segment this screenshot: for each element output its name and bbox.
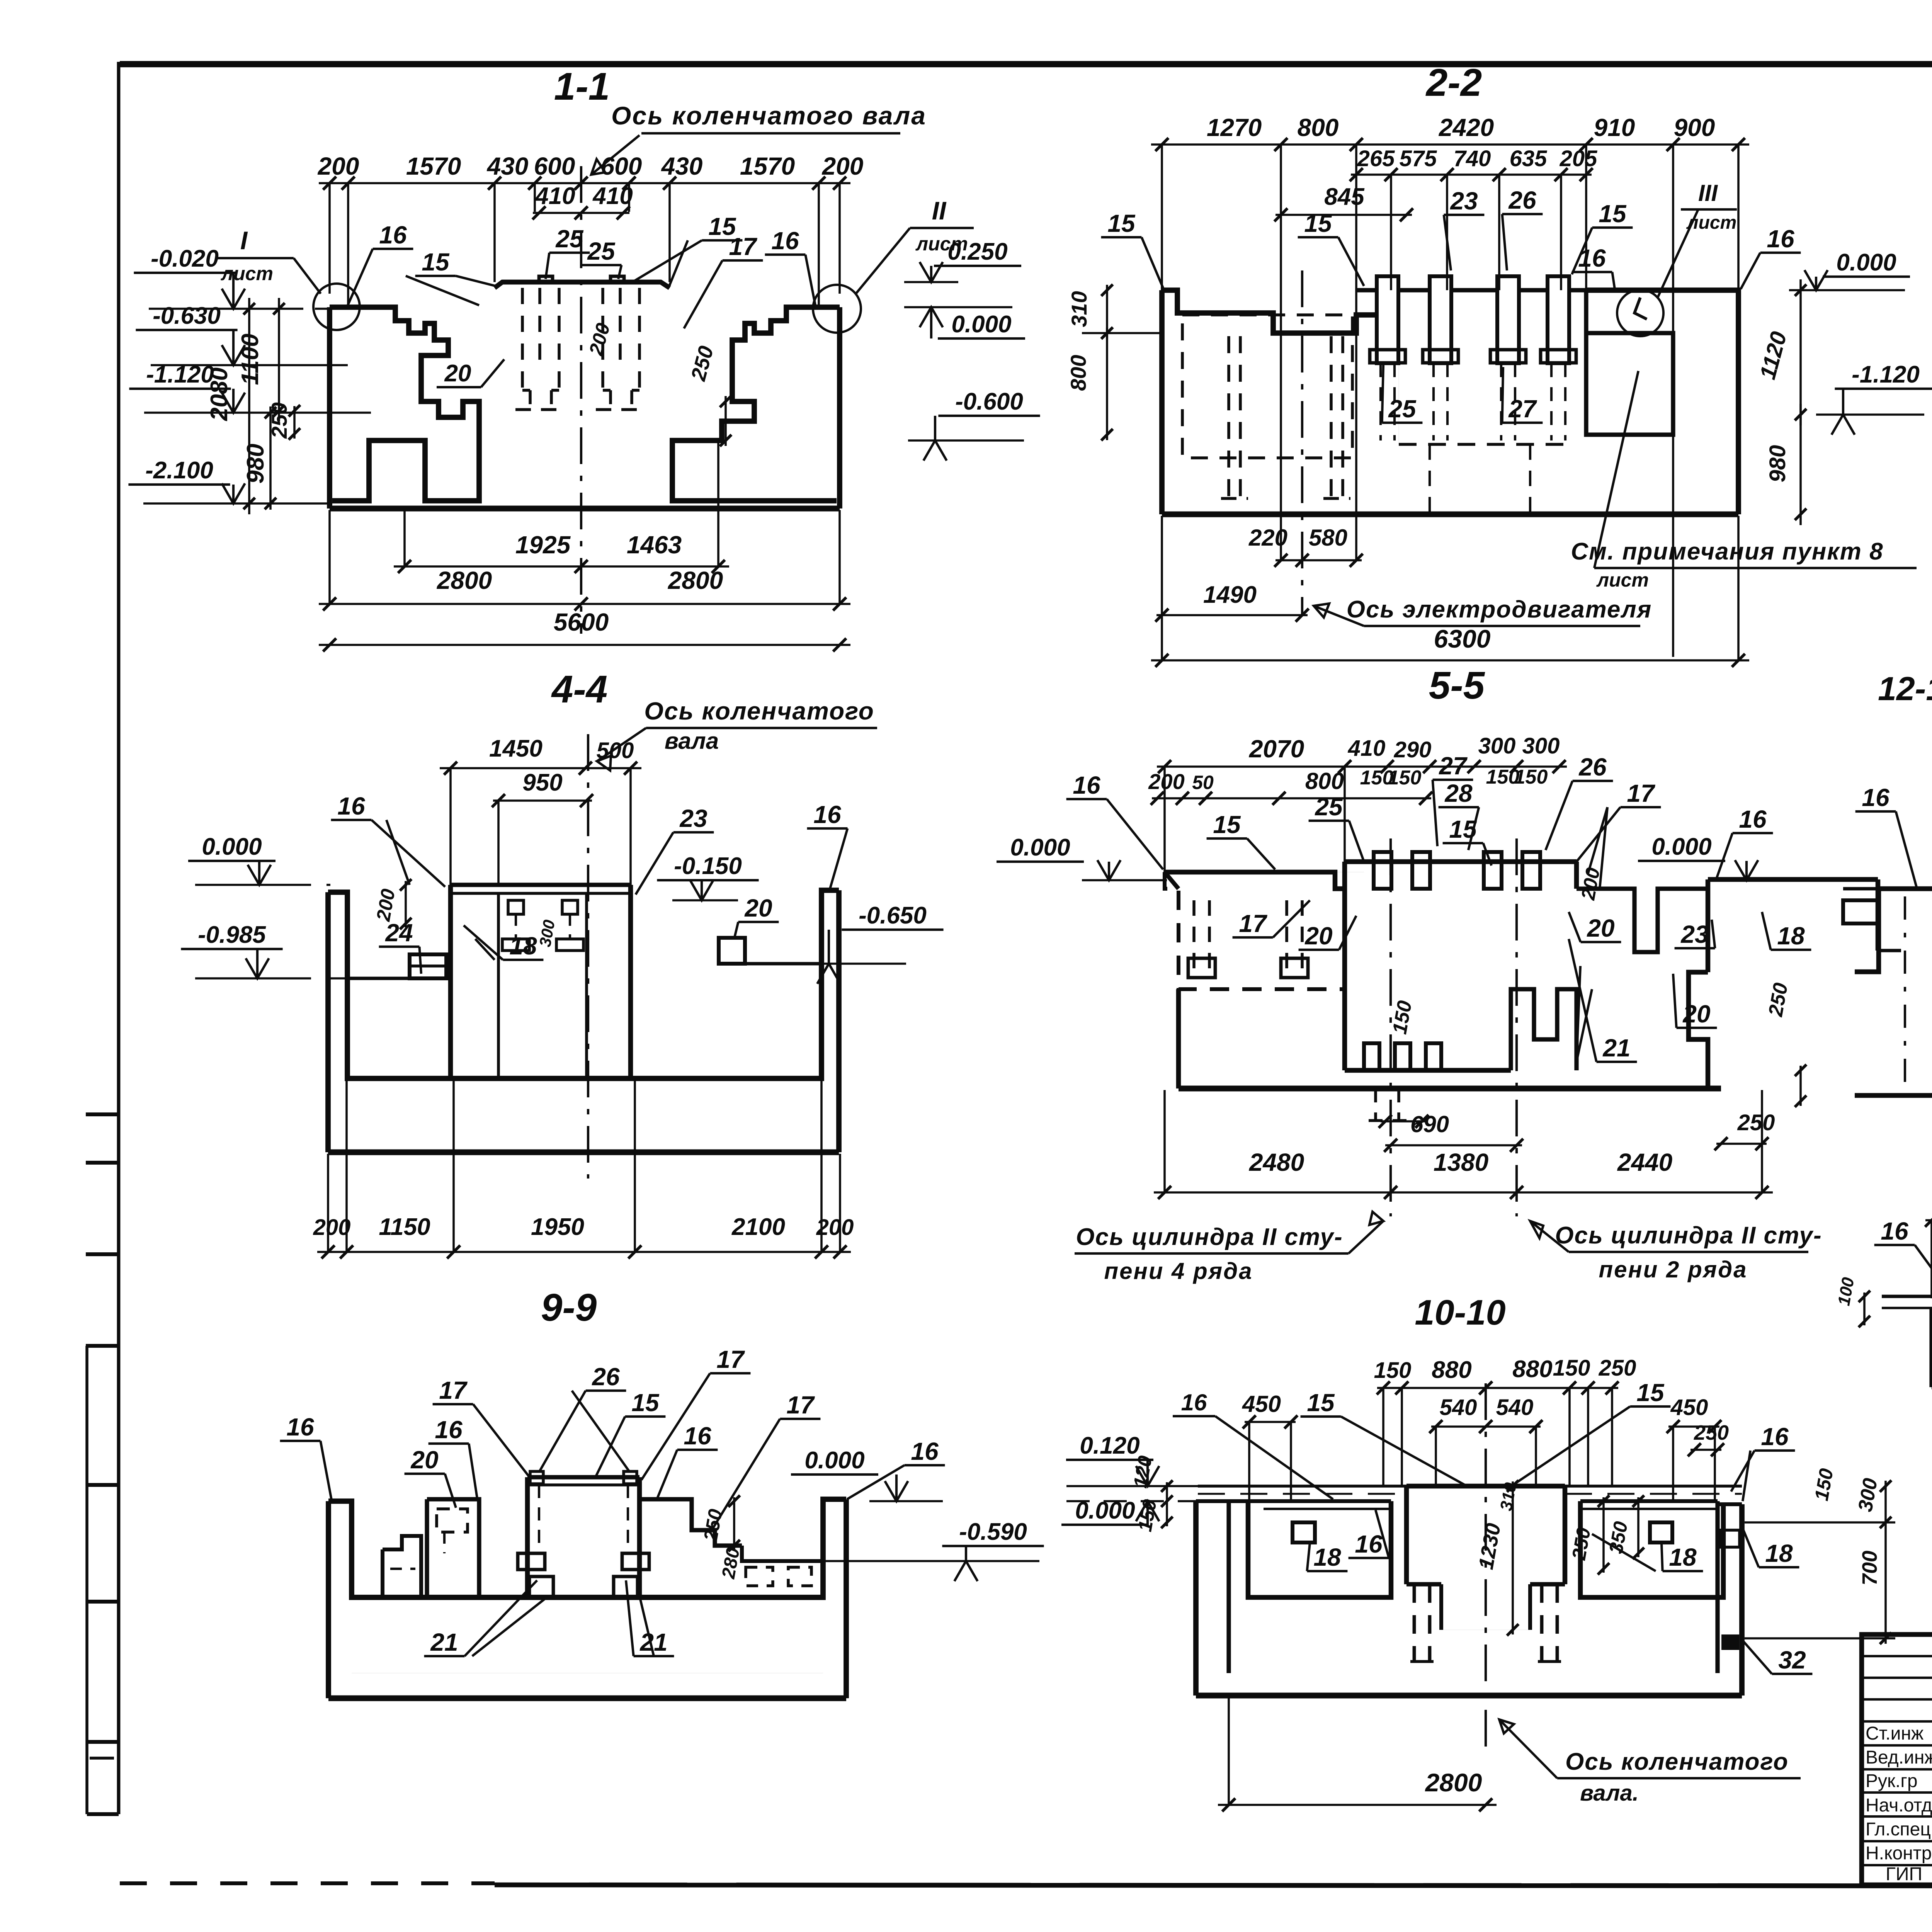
section 1-1 leader 25 pair — [546, 225, 621, 279]
svg-text:1570: 1570 — [740, 152, 795, 180]
section 2-2 labels 15 23 26 15 16 — [1101, 186, 1633, 292]
section 2-2 detail label III лист — [1658, 180, 1737, 298]
svg-text:-0.630: -0.630 — [153, 303, 221, 329]
section 2-2 bottom dim 6300 — [1151, 516, 1749, 667]
section 2-2 bottom dim 1490 — [1155, 516, 1309, 661]
svg-text:18: 18 — [509, 932, 537, 960]
section 10-10 elevation 0.120 left — [1066, 1432, 1198, 1486]
svg-text:Рук.гр: Рук.гр — [1866, 1771, 1918, 1791]
section 5-5 right block — [1689, 879, 1901, 1088]
section 9-9 title — [541, 1286, 597, 1329]
svg-text:1450: 1450 — [489, 735, 543, 762]
svg-text:410: 410 — [1348, 736, 1386, 761]
svg-text:17: 17 — [1239, 910, 1268, 937]
svg-text:580: 580 — [1309, 525, 1347, 551]
svg-text:-0.150: -0.150 — [674, 853, 742, 879]
section 4-4 title — [551, 668, 608, 711]
section 5-5 anchor pedestals — [1333, 852, 1540, 889]
section 9-9 leaders left group — [280, 1376, 530, 1508]
section 2-2 second dimension row 265 575 740 635 205 — [1350, 146, 1597, 290]
left margin column with ticks — [86, 1114, 119, 1814]
svg-text:700: 700 — [1858, 1551, 1881, 1585]
svg-text:880: 880 — [1512, 1356, 1552, 1383]
section 1-1 right elevation -0.600 — [908, 388, 1040, 461]
svg-text:900: 900 — [1674, 114, 1715, 141]
section 2-2 leader 16 right — [1741, 225, 1801, 289]
svg-text:1490: 1490 — [1203, 582, 1257, 608]
section 4-4 small dim 200 left — [372, 879, 412, 929]
section 2-2 left pit dashed — [1182, 315, 1352, 498]
svg-text:150: 150 — [1374, 1358, 1412, 1383]
svg-text:28: 28 — [1444, 779, 1473, 807]
svg-text:20: 20 — [444, 360, 471, 387]
svg-text:20: 20 — [1304, 922, 1332, 950]
section 1-1 bottom dim 5600 — [319, 608, 850, 651]
svg-text:200: 200 — [1148, 769, 1184, 794]
section 5-5 labels upper — [1066, 752, 1773, 889]
svg-text:540: 540 — [1496, 1395, 1534, 1420]
svg-text:2800: 2800 — [668, 566, 723, 594]
section 9-9 leader 16 right and elevations — [742, 1437, 1044, 1581]
svg-text:1925: 1925 — [515, 531, 571, 559]
section 1-1 leader 17 — [684, 233, 763, 328]
section 1-1 leader 16 left — [348, 221, 413, 305]
svg-text:I: I — [240, 226, 248, 255]
section 5-5 dim 250 right — [1714, 1110, 1775, 1150]
section 5-5 rotated dims 200 250 — [1577, 866, 1806, 1107]
section 5-5 bottom dims 2480 1380 2440 — [1154, 1090, 1773, 1199]
svg-text:0.000: 0.000 — [1010, 834, 1070, 861]
section 2-2 left vertical dims 310 800 — [1066, 284, 1163, 440]
section 10-10 right wall pocket details — [1720, 1522, 1740, 1650]
svg-text:200: 200 — [318, 152, 359, 180]
section 5-5 pit dashed left — [1188, 900, 1308, 978]
section 1-1 bottom slab line — [330, 501, 840, 509]
svg-text:21: 21 — [1602, 1034, 1630, 1062]
svg-text:690: 690 — [1410, 1111, 1449, 1137]
svg-text:980: 980 — [242, 444, 269, 483]
svg-text:2-2: 2-2 — [1425, 61, 1482, 104]
section 10-10 crankshaft axis note — [1499, 1719, 1801, 1806]
section 4-4 machine block inner details — [502, 900, 583, 951]
section 4-4 elevation 0.000 left — [188, 833, 330, 885]
svg-text:25: 25 — [1388, 395, 1417, 423]
section 1-1 right elevation 0.250 — [904, 238, 1021, 282]
svg-text:18: 18 — [1777, 922, 1805, 950]
section 10-10 dims 450 15 540 540 15 450 250 — [1173, 1379, 1795, 1501]
section 5-5 title — [1429, 664, 1485, 707]
section 1-1 left elevation -1.120 — [129, 361, 371, 413]
section 4-4 crankshaft axis note — [597, 697, 877, 770]
svg-text:16: 16 — [1767, 225, 1794, 253]
section 4-4 top dims 1450 500 — [440, 735, 641, 885]
svg-text:15: 15 — [1107, 209, 1136, 237]
section 9-9 left mid block — [427, 1499, 479, 1597]
section 2-2 motor axis centerline — [1301, 270, 1303, 614]
svg-text:Ось электродвигателя: Ось электродвигателя — [1347, 596, 1652, 623]
section 4-4 leader 24 — [379, 919, 421, 974]
svg-text:23: 23 — [679, 804, 707, 832]
svg-text:1270: 1270 — [1207, 114, 1262, 141]
section 1-1 top dimension row — [318, 152, 864, 307]
section 9-9 left small stepped block — [383, 1536, 421, 1597]
svg-text:16: 16 — [1862, 784, 1889, 811]
svg-text:20: 20 — [1682, 1000, 1710, 1028]
section 1-1 anchor bolt pockets dashed — [515, 288, 646, 410]
section 1-1 detail label II лист — [856, 196, 974, 294]
svg-text:16: 16 — [1181, 1389, 1207, 1415]
section 4-4 right ledge and block 20 — [719, 938, 821, 964]
section 10-10 leaders 18 16 18 18 32 — [1307, 1510, 1813, 1674]
svg-text:980: 980 — [1765, 445, 1790, 483]
section 1-1 detail circle I — [313, 284, 360, 330]
section 1-1 leader 20 — [437, 359, 504, 387]
section 4-4 elevation -0.985 left — [181, 922, 350, 978]
title block role labels column — [1866, 1723, 1932, 1884]
svg-text:-0.600: -0.600 — [955, 388, 1023, 415]
svg-text:9-9: 9-9 — [541, 1286, 597, 1329]
svg-text:лист: лист — [1686, 213, 1737, 233]
section 5-5 axis note cylinder II stage 4 row — [1075, 1212, 1383, 1284]
svg-text:200: 200 — [313, 1215, 351, 1240]
svg-text:600: 600 — [601, 152, 642, 180]
svg-text:Ось коленчатого: Ось коленчатого — [1565, 1748, 1789, 1775]
svg-text:25: 25 — [587, 237, 616, 265]
section 5-5 foundation outline — [1165, 862, 1721, 1088]
svg-text:16: 16 — [684, 1422, 711, 1450]
section 1-1 410-410 dimension — [532, 183, 633, 219]
svg-text:800: 800 — [1066, 355, 1090, 391]
svg-text:6300: 6300 — [1434, 624, 1491, 653]
section 1-1 left vertical dims 2080 1100 250 980 — [206, 298, 300, 514]
svg-text:вала.: вала. — [1580, 1781, 1639, 1806]
section 1-1 crankshaft centerline — [580, 166, 582, 634]
svg-text:16: 16 — [1355, 1530, 1383, 1558]
svg-text:0.250: 0.250 — [947, 238, 1007, 265]
section 4-4 crankshaft centerline — [587, 734, 589, 1179]
section 9-9 center pedestal — [518, 1471, 649, 1597]
section 1-1 detail label I лист — [216, 226, 321, 294]
svg-text:430: 430 — [661, 152, 703, 180]
svg-text:4-4: 4-4 — [551, 668, 608, 711]
svg-text:12-12: 12-12 — [1878, 670, 1932, 707]
svg-text:15: 15 — [1304, 209, 1332, 237]
section 2-2 central pedestals with anchor plates — [1356, 276, 1586, 444]
section 4-4 left pit floor and block 24 — [347, 954, 451, 978]
svg-text:Ст.инж: Ст.инж — [1866, 1723, 1923, 1744]
svg-text:-0.985: -0.985 — [198, 922, 266, 948]
svg-text:Гл.спец: Гл.спец — [1866, 1819, 1931, 1840]
svg-text:265: 265 — [1357, 146, 1395, 171]
svg-text:23: 23 — [1680, 920, 1708, 948]
section 1-1 foundation outline left half — [330, 307, 479, 501]
svg-text:-0.020: -0.020 — [151, 245, 219, 272]
section 4-4 elevation -0.650 right — [802, 902, 944, 984]
title block left rows — [1862, 1656, 1932, 1865]
section 10-10 elevation 0.000 left — [1061, 1497, 1198, 1525]
section 1-1 left elevation -0.630 — [136, 303, 348, 365]
svg-text:0.000: 0.000 — [1651, 833, 1711, 860]
svg-text:II: II — [932, 196, 947, 225]
section 1-1 crankshaft axis note — [591, 101, 927, 175]
svg-text:250: 250 — [1694, 1421, 1729, 1444]
svg-text:17: 17 — [1627, 779, 1656, 807]
bottom border line — [120, 1881, 495, 1885]
svg-text:15: 15 — [422, 248, 450, 276]
section 7-7 dims 950 1800 — [1925, 1189, 1932, 1298]
svg-text:1570: 1570 — [406, 152, 461, 180]
section 10-10 thin slab lines across — [1198, 1486, 1742, 1494]
svg-text:III: III — [1698, 180, 1718, 206]
svg-text:24: 24 — [385, 919, 413, 947]
svg-text:20: 20 — [1587, 914, 1614, 942]
section 2-2 electric motor axis note — [1314, 596, 1652, 626]
svg-text:26: 26 — [592, 1363, 620, 1391]
section 5-5 second dims 200 50 800 150 150 150 150 — [1148, 766, 1548, 805]
svg-text:635: 635 — [1510, 146, 1548, 171]
svg-text:17: 17 — [716, 1345, 745, 1373]
svg-text:См. примечания пункт 8: См. примечания пункт 8 — [1571, 538, 1883, 565]
section 4-4 elevation -0.150 — [657, 853, 759, 900]
svg-text:15: 15 — [1636, 1379, 1665, 1406]
svg-text:20: 20 — [744, 894, 772, 922]
svg-text:Н.контр: Н.контр — [1866, 1843, 1932, 1864]
section 9-9 right mid block — [639, 1499, 823, 1586]
section 9-9 rotated dims 250 280 — [699, 1495, 744, 1580]
section 1-1 foundation outline right half — [672, 307, 840, 501]
svg-text:15: 15 — [1599, 200, 1627, 228]
section 10-10 rotated dims 120 150 left — [1129, 1454, 1173, 1533]
svg-text:1950: 1950 — [531, 1214, 584, 1240]
section 5-5 top dims 2070 410 290 300 300 — [1157, 733, 1567, 872]
section 7-7 leaders 16 18 18 — [1874, 1217, 1932, 1389]
svg-text:23: 23 — [1450, 187, 1478, 215]
section 4-4 leader 20 — [734, 894, 779, 939]
section 2-2 note see remarks item 8 — [1571, 371, 1917, 591]
svg-text:-0.650: -0.650 — [859, 902, 927, 929]
svg-text:18: 18 — [1669, 1543, 1697, 1571]
section 5-5 bolt dashes lower — [1368, 1088, 1406, 1121]
svg-text:800: 800 — [1305, 768, 1344, 794]
svg-text:2420: 2420 — [1439, 114, 1494, 141]
svg-text:-1.120: -1.120 — [1852, 361, 1920, 388]
section 2-2 top dimension row — [1151, 114, 1749, 657]
svg-text:150: 150 — [1553, 1355, 1590, 1381]
left border line — [117, 62, 121, 1814]
svg-text:410: 410 — [592, 183, 633, 209]
svg-text:575: 575 — [1400, 146, 1437, 171]
svg-text:32: 32 — [1778, 1646, 1806, 1674]
svg-text:15: 15 — [1307, 1389, 1335, 1417]
main title block frame — [1862, 1634, 1932, 1885]
section 10-10 bottom dim 2800 — [1218, 1697, 1497, 1811]
svg-text:16: 16 — [286, 1413, 314, 1441]
section 9-9 outer tub outline — [328, 1499, 846, 1698]
section 1-1 right small dim 250 — [687, 344, 731, 446]
svg-text:16: 16 — [337, 792, 365, 820]
section 2-2 elevation 0.000 right — [1789, 249, 1910, 290]
section 5-5 leaders middle — [1233, 900, 1811, 1062]
svg-text:Ось цилиндра II сту-: Ось цилиндра II сту- — [1076, 1224, 1343, 1250]
svg-text:150: 150 — [1514, 766, 1548, 788]
svg-text:лист: лист — [1596, 569, 1649, 591]
section 2-2 center dashed pit lines — [1430, 444, 1530, 514]
section 4-4 dim 950 — [492, 769, 593, 885]
svg-text:50: 50 — [1192, 772, 1214, 793]
svg-text:2080: 2080 — [206, 367, 233, 421]
section 10-10 top dims 150 880 880 150 250 — [1374, 1355, 1636, 1486]
section 2-2 detail circle — [1617, 290, 1663, 336]
svg-text:800: 800 — [1298, 114, 1339, 141]
section 12-12 small section outline — [1855, 889, 1932, 1095]
section 10-10 center pedestal — [1406, 1486, 1565, 1630]
svg-text:910: 910 — [1594, 114, 1635, 141]
svg-text:250: 250 — [1599, 1355, 1636, 1381]
svg-text:500: 500 — [597, 738, 634, 763]
svg-text:1150: 1150 — [379, 1214, 430, 1240]
section 1-1 detail circle II — [813, 285, 861, 333]
section 2-2 bottom dims 220 580 — [1248, 525, 1363, 567]
svg-text:540: 540 — [1440, 1395, 1477, 1420]
svg-text:0.000: 0.000 — [202, 833, 262, 860]
svg-text:410: 410 — [534, 183, 575, 209]
section 5-5 axis note cylinder II stage 2 row — [1530, 1221, 1822, 1282]
svg-text:26: 26 — [1578, 753, 1607, 781]
svg-text:310: 310 — [1067, 291, 1091, 327]
section 2-2 title — [1425, 61, 1482, 104]
svg-text:0.120: 0.120 — [1080, 1432, 1139, 1459]
svg-text:15: 15 — [1449, 815, 1477, 843]
section 2-2 leaders 25 27 — [1382, 365, 1543, 423]
svg-text:ГИП: ГИП — [1886, 1864, 1922, 1884]
section 4-4 bottom dims 200 1150 1950 2100 200 — [313, 1080, 854, 1259]
svg-text:-2.100: -2.100 — [145, 457, 213, 484]
svg-text:16: 16 — [435, 1416, 463, 1444]
section 10-10 center pedestal bolts dashed — [1410, 1584, 1561, 1662]
svg-text:-1.120: -1.120 — [146, 361, 214, 388]
svg-text:Ось коленчатого вала: Ось коленчатого вала — [611, 101, 927, 130]
svg-text:16: 16 — [1739, 805, 1767, 833]
svg-text:2480: 2480 — [1249, 1148, 1304, 1176]
svg-text:вала: вала — [665, 728, 719, 754]
svg-text:2800: 2800 — [437, 566, 492, 594]
svg-text:18: 18 — [1765, 1539, 1793, 1567]
svg-text:Вед.инж: Вед.инж — [1866, 1747, 1932, 1768]
svg-text:300: 300 — [1522, 733, 1560, 759]
section 1-1 right elevation 0.000 — [904, 307, 1025, 338]
section 1-1 leader 16 right — [765, 227, 815, 305]
svg-text:Нач.отд: Нач.отд — [1866, 1795, 1932, 1816]
section 2-2 foundation body outline — [1162, 290, 1738, 514]
svg-text:1380: 1380 — [1434, 1148, 1488, 1176]
svg-text:25: 25 — [1315, 793, 1343, 821]
section 1-1 leader 15 left — [406, 248, 498, 305]
svg-text:25: 25 — [555, 225, 584, 253]
svg-text:16: 16 — [1073, 771, 1100, 799]
svg-text:450: 450 — [1670, 1395, 1708, 1420]
svg-text:16: 16 — [379, 221, 407, 249]
svg-text:20: 20 — [410, 1446, 438, 1474]
section 1-1 machine table top — [495, 276, 670, 288]
svg-text:300: 300 — [1478, 733, 1516, 759]
section 4-4 machine block — [451, 885, 631, 1078]
svg-text:17: 17 — [729, 233, 758, 260]
svg-text:16: 16 — [1578, 244, 1606, 272]
svg-text:18: 18 — [1313, 1543, 1341, 1571]
section 2-2 elevation -1.120 right — [1816, 361, 1932, 435]
svg-text:27: 27 — [1439, 752, 1468, 780]
svg-text:5-5: 5-5 — [1429, 664, 1485, 707]
svg-text:0.000: 0.000 — [1836, 249, 1896, 276]
svg-text:10-10: 10-10 — [1415, 1293, 1505, 1332]
section 4-4 leader 18 — [464, 925, 543, 960]
top border line — [120, 61, 1932, 67]
svg-text:Ось коленчатого: Ось коленчатого — [644, 697, 874, 725]
svg-text:16: 16 — [813, 801, 841, 828]
svg-text:16: 16 — [1761, 1423, 1789, 1451]
svg-text:пени 2 ряда: пени 2 ряда — [1599, 1257, 1747, 1282]
section 9-9 leaders 21 21 — [424, 1580, 674, 1656]
svg-text:27: 27 — [1508, 395, 1537, 423]
svg-text:26: 26 — [1508, 186, 1536, 214]
svg-text:950: 950 — [522, 769, 562, 796]
section 5-5 dim 690 — [1384, 1111, 1523, 1152]
section 12-12 leader 16 — [1855, 784, 1917, 887]
svg-text:5600: 5600 — [554, 608, 609, 636]
section 5-5 comb teeth middle — [1364, 1043, 1441, 1070]
svg-text:2440: 2440 — [1617, 1148, 1672, 1176]
svg-text:200: 200 — [822, 152, 864, 180]
section 10-10 right rotated dims 150 300 700 — [1745, 1467, 1895, 1644]
section 1-1 bottom dims 2800 2800 — [319, 510, 850, 611]
svg-text:845: 845 — [1324, 184, 1365, 210]
svg-text:15: 15 — [1213, 811, 1241, 838]
section 1-1 small dim 200 mid — [585, 321, 614, 358]
svg-text:1463: 1463 — [627, 531, 682, 559]
section 5-5 small dim 150 lower — [1379, 999, 1429, 1128]
svg-text:740: 740 — [1454, 146, 1491, 171]
svg-text:1-1: 1-1 — [554, 65, 610, 108]
section 4-4 foundation outline — [328, 890, 839, 1152]
section 10-10 rotated dims 1230 310 250 350 — [1474, 1480, 1644, 1636]
section 1-1 leader 15 right — [634, 213, 742, 288]
svg-text:16: 16 — [771, 227, 799, 255]
svg-text:21: 21 — [430, 1628, 458, 1656]
svg-text:16: 16 — [1881, 1217, 1908, 1245]
section 2-2 dim 845 — [1274, 184, 1413, 221]
svg-text:пени 4 ряда: пени 4 ряда — [1104, 1258, 1253, 1284]
section 4-4 leaders 16 23 16 — [331, 792, 848, 895]
svg-text:1100: 1100 — [237, 333, 264, 385]
svg-text:2100: 2100 — [731, 1214, 785, 1240]
svg-text:-0.590: -0.590 — [959, 1519, 1027, 1545]
section 9-9 leaders center group — [539, 1345, 820, 1528]
section 1-1 bottom dims 1925 1463 — [394, 442, 729, 573]
svg-text:17: 17 — [439, 1376, 468, 1404]
section 7-7 slab and ground lines — [1834, 1276, 1932, 1327]
section 10-10 foundation outline — [1196, 1501, 1742, 1696]
svg-text:450: 450 — [1242, 1391, 1281, 1417]
svg-text:220: 220 — [1248, 525, 1287, 551]
svg-text:15: 15 — [631, 1389, 660, 1417]
section 1-1 title — [554, 65, 610, 108]
svg-text:0.000: 0.000 — [804, 1447, 864, 1474]
svg-text:430: 430 — [486, 152, 529, 180]
svg-text:Ось цилиндра II сту-: Ось цилиндра II сту- — [1555, 1222, 1822, 1249]
section 10-10 pit boxes 18 — [1264, 1509, 1716, 1543]
svg-text:2070: 2070 — [1249, 735, 1304, 763]
svg-text:150: 150 — [1388, 767, 1422, 789]
